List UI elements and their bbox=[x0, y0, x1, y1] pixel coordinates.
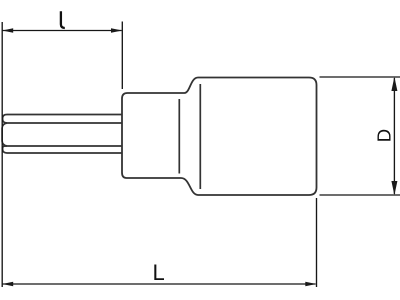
svg-text:D: D bbox=[373, 129, 394, 142]
svg-text:L: L bbox=[153, 260, 165, 285]
